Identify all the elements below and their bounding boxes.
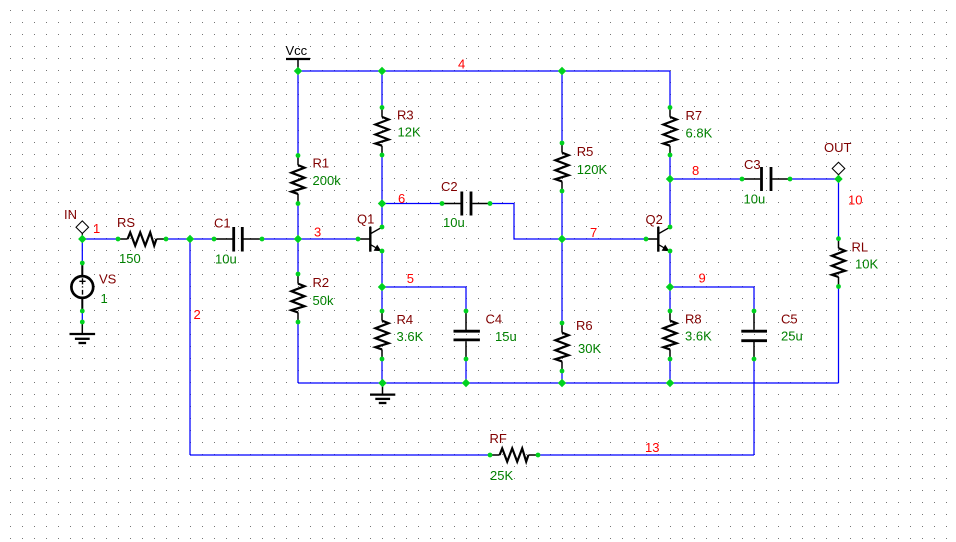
svg-text:13: 13: [645, 440, 659, 455]
svg-text:120K: 120K: [577, 162, 608, 177]
resistor R1: [291, 156, 304, 204]
wire node 9 to R8: [669, 287, 671, 311]
svg-text:9: 9: [699, 270, 706, 285]
terminal R1 pin 2: [296, 201, 301, 206]
terminal C2 pin 1: [440, 201, 445, 206]
svg-text:1: 1: [101, 291, 108, 306]
wire node 13 up to C5: [753, 359, 755, 455]
svg-text:R7: R7: [686, 108, 703, 123]
svg-text:10K: 10K: [855, 257, 878, 272]
capacitor C5: [741, 311, 767, 359]
svg-text:200k: 200k: [313, 173, 342, 188]
wire node 2 vertical: [189, 239, 191, 455]
svg-text:10u: 10u: [443, 215, 465, 230]
resistor R2: [291, 274, 304, 322]
port OUT diamond: [832, 162, 845, 179]
svg-text:Q1: Q1: [357, 212, 374, 227]
terminal VS plus: [80, 261, 85, 266]
terminal C5 pin 1: [752, 309, 757, 314]
terminal RF pin 1: [488, 453, 493, 458]
transistor Q1: [358, 227, 382, 252]
wire RS to node 2 junction: [166, 238, 190, 240]
terminal C4 pin 1: [464, 309, 469, 314]
wire C3 right to OUT: [790, 178, 839, 180]
terminal R2 pin 1: [296, 272, 301, 277]
terminal R3 pin 2: [380, 153, 385, 158]
wire node 8 to C3: [670, 178, 742, 180]
terminal R2 pin 2: [296, 320, 301, 325]
svg-text:R1: R1: [313, 156, 330, 171]
Vcc power symbol: [286, 59, 310, 71]
junction ground bus at R6: [558, 379, 566, 387]
junction node 8: [666, 175, 674, 183]
wire RF to node 13 corner: [538, 454, 754, 456]
terminal R8 pin 2: [668, 357, 673, 362]
wire VS minus to ground: [81, 311, 83, 322]
resistor R8: [663, 311, 676, 359]
wire R7 bottom to node 8: [669, 155, 671, 179]
svg-text:C1: C1: [214, 216, 231, 231]
svg-text:OUT: OUT: [824, 140, 852, 155]
svg-text:3.6K: 3.6K: [397, 329, 424, 344]
junction node 7: [558, 235, 566, 243]
junction node 4 at Vcc: [294, 67, 302, 75]
terminal R8 pin 1: [668, 309, 673, 314]
terminal R4 pin 1: [380, 309, 385, 314]
junction node 6: [378, 199, 386, 207]
svg-text:IN: IN: [64, 207, 77, 222]
junction ground bus at C4: [462, 379, 470, 387]
svg-text:30K: 30K: [578, 341, 601, 356]
svg-text:10u: 10u: [215, 252, 237, 267]
svg-text:6: 6: [398, 191, 405, 206]
wire node 4 top bus: [298, 70, 670, 72]
wire node 7 to Q2 base: [562, 238, 646, 240]
terminal Q1 collector: [380, 225, 385, 230]
svg-text:25u: 25u: [781, 329, 803, 344]
terminal C3 pin 2: [788, 177, 793, 182]
wire R2 bottom to ground bus: [297, 322, 299, 383]
terminal R7 pin 2: [668, 153, 673, 158]
wire bus to R5: [561, 71, 563, 143]
wire R5 bottom to node 7: [561, 191, 563, 239]
terminal RL pin 2: [836, 284, 841, 289]
svg-text:C4: C4: [486, 312, 503, 327]
svg-text:Q2: Q2: [646, 212, 663, 227]
junction node 9: [666, 283, 674, 291]
svg-text:25K: 25K: [490, 468, 513, 483]
svg-text:R2: R2: [313, 275, 330, 290]
junction node 2 branch: [186, 235, 194, 243]
wire R4 to ground bus: [381, 359, 383, 383]
junction node 10 at OUT: [834, 175, 842, 183]
svg-text:8: 8: [692, 163, 699, 178]
svg-text:5: 5: [407, 271, 414, 286]
terminal Q1 emitter: [380, 249, 385, 254]
svg-text:3.6K: 3.6K: [685, 329, 712, 344]
terminal RL pin 1: [836, 236, 841, 241]
terminal C5 pin 2: [752, 357, 757, 362]
wire C2 right to node 7: [490, 204, 562, 240]
wire bus corner to R7: [669, 71, 671, 108]
wire node 1 IN to RS: [82, 238, 118, 240]
svg-text:R4: R4: [397, 312, 414, 327]
terminal C4 pin 2: [464, 357, 469, 362]
terminal R7 pin 1: [668, 105, 673, 110]
svg-text:10: 10: [848, 193, 862, 208]
terminal Q2 base: [644, 237, 649, 242]
junction node 3 at R1 R2: [294, 235, 302, 243]
capacitor C4: [454, 311, 480, 359]
transistor Q2: [646, 227, 670, 252]
port IN diamond: [76, 221, 89, 239]
wire bus to R3: [381, 71, 383, 108]
svg-text:R6: R6: [576, 318, 593, 333]
terminal C1 pin 2: [260, 237, 265, 242]
resistor RL: [832, 239, 845, 287]
terminal RS pin 2: [164, 237, 169, 242]
svg-text:C3: C3: [744, 157, 761, 172]
svg-text:50k: 50k: [313, 293, 334, 308]
svg-text:RS: RS: [117, 215, 135, 230]
junction ground bus at R8: [666, 379, 674, 387]
svg-text:R5: R5: [577, 144, 594, 159]
svg-text:2: 2: [194, 307, 201, 322]
wire node 1 IN down to VS: [81, 239, 83, 263]
terminal Q2 collector: [668, 225, 673, 230]
svg-text:150: 150: [119, 251, 141, 266]
resistor R7: [663, 108, 676, 156]
wire node 6 to Q1 collector: [381, 204, 383, 228]
capacitor C3: [742, 167, 790, 191]
wire C4 to ground bus: [465, 359, 467, 383]
terminal R3 pin 1: [380, 105, 385, 110]
svg-text:Vcc: Vcc: [286, 43, 308, 58]
svg-text:7: 7: [590, 225, 597, 240]
wire node 3 to R2 top: [297, 239, 299, 274]
terminal R5 pin 2: [560, 189, 565, 194]
resistor R4: [375, 311, 388, 359]
svg-text:15u: 15u: [495, 329, 517, 344]
junction ground bus at ground symbol: [378, 379, 386, 387]
wire R8 to ground bus: [669, 359, 671, 383]
svg-text:R8: R8: [685, 312, 702, 327]
svg-text:C2: C2: [441, 179, 458, 194]
wire node 5 to R4: [381, 287, 383, 311]
wire OUT down to RL: [838, 179, 840, 239]
wire Q1 emitter to node 5: [381, 251, 383, 287]
ground below VS: [70, 322, 96, 343]
wire Q2 emitter to node 9: [669, 251, 671, 287]
ground on bus: [370, 383, 395, 403]
wire node 2 junction to C1: [190, 238, 214, 240]
svg-text:RF: RF: [490, 431, 507, 446]
wire R1 bottom to node 3: [297, 204, 299, 240]
svg-text:1: 1: [93, 221, 100, 236]
capacitor C1: [214, 227, 262, 252]
resistor R3: [375, 108, 388, 156]
wire ground bus: [298, 382, 839, 384]
terminal R6 pin 1: [560, 321, 565, 326]
wire node 5 to C4: [382, 287, 466, 311]
source VS: [71, 263, 93, 311]
terminal RF pin 2: [536, 453, 541, 458]
svg-text:3: 3: [314, 225, 321, 240]
wire R6 to ground bus: [561, 371, 563, 383]
terminal C2 pin 2: [488, 201, 493, 206]
wire RL to ground bus: [838, 287, 840, 384]
terminal C1 pin 1: [212, 237, 217, 242]
resistor R6: [555, 323, 568, 371]
wire node 6 to C2: [382, 203, 442, 205]
terminal R5 pin 1: [560, 141, 565, 146]
terminal ground under VS: [80, 320, 85, 325]
wire node 7 down to R6: [561, 239, 563, 323]
wire node 3 to Q1 base: [298, 238, 358, 240]
junction node 4 at R3: [378, 67, 386, 75]
svg-text:4: 4: [458, 56, 465, 71]
resistor RF: [490, 448, 538, 461]
terminal C3 pin 1: [740, 177, 745, 182]
svg-text:10u: 10u: [744, 192, 766, 207]
svg-text:RL: RL: [852, 240, 869, 255]
resistor RS: [118, 232, 166, 245]
wire node 3 C1 to R1 R2 column: [262, 238, 298, 240]
junction node 5: [378, 283, 386, 291]
terminal RS pin 1: [116, 237, 121, 242]
resistor R5: [555, 143, 568, 191]
svg-text:C5: C5: [781, 312, 798, 327]
terminal R6 pin 2: [560, 369, 565, 374]
svg-text:12K: 12K: [398, 125, 421, 140]
terminal Q1 base: [356, 237, 361, 242]
terminal VS minus: [80, 309, 85, 314]
terminal R1 pin 1: [296, 153, 301, 158]
svg-text:6.8K: 6.8K: [686, 126, 713, 141]
wire node 8 to Q2 collector: [669, 179, 671, 227]
wire R3 bottom to node 6: [381, 155, 383, 204]
svg-text:VS: VS: [99, 272, 117, 287]
junction node 1 at IN: [78, 235, 86, 243]
wire node 9 to C5: [670, 287, 754, 311]
wire node 2 to RF: [190, 454, 490, 456]
junction node 4 at R5: [558, 67, 566, 75]
capacitor C2: [442, 192, 490, 216]
wire Vcc junction down to R1: [297, 71, 299, 156]
terminal R4 pin 2: [380, 357, 385, 362]
svg-text:R3: R3: [397, 108, 414, 123]
terminal Q2 emitter: [668, 249, 673, 254]
